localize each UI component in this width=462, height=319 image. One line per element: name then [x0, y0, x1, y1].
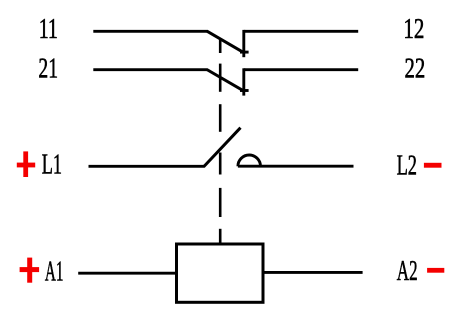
NC contact R2 blade (21-22)	[207, 70, 245, 92]
svg-text:11: 11	[39, 14, 58, 45]
wire 22	[244, 68, 358, 71]
wire A2	[263, 271, 363, 274]
wire 21	[93, 68, 207, 71]
polarity plus at A1	[20, 258, 39, 283]
wire 11	[93, 30, 207, 33]
polarity minus at L2	[424, 163, 442, 168]
svg-text:12: 12	[403, 14, 424, 45]
NC contact R2 fixed post (22)	[242, 68, 245, 95]
relay coil K1 (A1-A2)	[177, 244, 264, 302]
NC contact R2 tick (22)	[240, 89, 249, 92]
svg-text:A2: A2	[397, 256, 418, 287]
polarity plus at L1	[17, 151, 35, 177]
NC contact R1 tick (12)	[240, 51, 249, 54]
wire 12	[244, 30, 358, 33]
svg-text:22: 22	[405, 54, 426, 85]
svg-text:A1: A1	[45, 257, 64, 288]
svg-text:21: 21	[38, 54, 58, 85]
svg-text:L2: L2	[397, 151, 417, 182]
svg-text:L1: L1	[42, 150, 62, 181]
wire L1	[89, 165, 205, 168]
wire L2	[238, 165, 354, 168]
mechanical linkage dashed line	[219, 38, 222, 244]
polarity minus at A2	[427, 268, 444, 273]
semicircle contact at L2	[238, 155, 261, 166]
wire A1	[78, 272, 177, 275]
NC contact R1 fixed post (12)	[242, 30, 245, 57]
switch blade L1-L2	[204, 128, 241, 167]
NC contact R1 blade (11-12)	[207, 31, 245, 53]
